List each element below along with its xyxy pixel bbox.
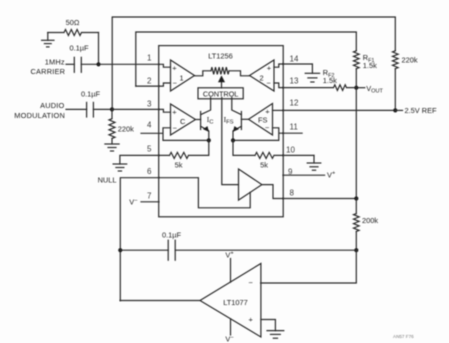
svg-text:−: −: [249, 278, 253, 287]
svg-text:−: −: [173, 124, 177, 133]
svg-text:CONTROL: CONTROL: [203, 90, 238, 99]
svg-text:1: 1: [147, 54, 152, 63]
svg-text:1MHz: 1MHz: [45, 57, 65, 66]
wiper arrow from CONTROL to potentiometer: [218, 75, 225, 88]
svg-text:LT1077: LT1077: [223, 298, 248, 307]
node Vout junction: [354, 86, 358, 90]
wire pin 8 to Vout line: [283, 198, 356, 200]
ground G4 (pin 14): [305, 64, 319, 82]
svg-text:6: 6: [147, 167, 152, 176]
wire to LT1077 inverting input: [261, 250, 356, 283]
wire pin 14 to A2 + input: [274, 64, 283, 67]
wire top feedback loop A (audio node to 220k bias): [112, 17, 395, 109]
svg-text:5k: 5k: [175, 161, 183, 170]
resistor 200k: [354, 199, 379, 232]
node audio junction: [110, 107, 114, 111]
svg-text:1: 1: [180, 74, 184, 83]
svg-text:3: 3: [147, 100, 152, 109]
svg-text:C: C: [180, 117, 186, 126]
svg-text:9: 9: [288, 167, 293, 176]
node Q1 emitter junction: [207, 138, 211, 142]
node pin 8 junction: [354, 196, 358, 200]
svg-text:11: 11: [290, 122, 299, 131]
resistor RF1 1.5k: [354, 51, 378, 70]
svg-text:NULL: NULL: [98, 175, 117, 184]
svg-text:AN57 F76: AN57 F76: [393, 334, 414, 339]
op-amp U2 LT1077: [200, 264, 261, 338]
svg-text:1.5k: 1.5k: [323, 76, 337, 85]
wire pin 14 to ground: [283, 63, 312, 65]
resistor 50Ω: [48, 18, 99, 36]
wire pin 6 null to buffer: [159, 178, 251, 208]
op-amp A1 (video amp 1): [171, 60, 195, 91]
svg-text:200k: 200k: [362, 216, 378, 225]
svg-text:−: −: [267, 79, 271, 88]
svg-text:+: +: [267, 63, 271, 72]
wire pin 12 to FS + input: [273, 109, 284, 111]
svg-text:2: 2: [147, 76, 152, 85]
op-amp C (control amp): [171, 104, 196, 135]
wire pin 7 stub: [141, 201, 159, 203]
svg-text:CARRIER: CARRIER: [31, 67, 66, 76]
wire pin 5 to ground: [120, 155, 159, 164]
wire pin 13 to A2 - input: [274, 83, 283, 88]
label AUDIO MODULATION: [14, 101, 65, 120]
wire feedback loop B (Vout via RF1 to pin 2): [136, 32, 356, 86]
svg-text:8: 8: [290, 188, 295, 197]
potentiometer (fader) between A1 and A2 outputs: [195, 67, 250, 76]
op-amp FS (full-scale amp): [249, 104, 273, 136]
svg-text:0.1µF: 0.1µF: [81, 90, 101, 99]
resistor 220k (bias to 2.5V ref): [393, 51, 418, 69]
svg-text:2.5V REF: 2.5V REF: [405, 106, 438, 115]
wire LT1077 + input to ground: [261, 320, 276, 331]
wire LT1077 V+ supply: [225, 250, 233, 282]
wire pin 3 to C + input: [159, 109, 171, 112]
op-amp A3 output buffer: [239, 169, 262, 200]
svg-text:0.1µF: 0.1µF: [69, 44, 89, 53]
wire 50ohm to carrier node: [98, 33, 100, 65]
IC U1 LT1256 package box: [159, 46, 284, 217]
wire carrier to pin 1: [99, 63, 159, 65]
svg-text:−: −: [265, 123, 269, 132]
svg-text:5: 5: [147, 145, 152, 154]
op-amp A2 (video amp 2): [250, 60, 275, 91]
wire control wiper to output buffer input: [222, 98, 239, 185]
svg-text:13: 13: [290, 77, 299, 86]
svg-text:7: 7: [147, 192, 152, 201]
node carrier junction: [96, 62, 100, 66]
label 1MHz CARRIER: [31, 57, 66, 75]
wire LT1077 V- supply: [225, 319, 233, 343]
wire RF1 to Vout node: [355, 69, 357, 88]
svg-text:+: +: [172, 63, 176, 72]
svg-text:2: 2: [260, 74, 264, 83]
svg-text:10: 10: [286, 145, 295, 154]
svg-text:14: 14: [290, 54, 299, 63]
svg-text:MODULATION: MODULATION: [14, 111, 65, 120]
svg-text:+: +: [249, 315, 253, 324]
svg-text:50Ω: 50Ω: [66, 18, 80, 27]
node 2.5V ref junction: [393, 108, 397, 112]
wire Vout node down to pin 8: [355, 88, 357, 199]
svg-text:+: +: [265, 107, 269, 116]
capacitor C1 0.1uF (carrier input): [66, 44, 99, 73]
svg-text:5k: 5k: [260, 161, 268, 170]
wire audio to pin 3: [112, 108, 159, 110]
node Q2 emitter junction: [231, 138, 235, 142]
transistor Q1 (IC current): [196, 98, 211, 141]
ground G2 (below 220k): [105, 139, 119, 152]
svg-text:220k: 220k: [118, 125, 134, 134]
ground G6 (LT1077 + input): [267, 331, 284, 339]
transistor Q2 (IFS current): [232, 98, 249, 141]
resistor RF2 1.5k (pin 13 to Vout): [283, 68, 356, 90]
svg-text:4: 4: [147, 121, 152, 130]
wire pin 6 NULL net down to LT1077 output: [120, 178, 158, 301]
svg-text:220k: 220k: [402, 55, 418, 64]
svg-text:AUDIO: AUDIO: [40, 101, 64, 110]
resistor 220k (audio input to ground): [109, 109, 134, 138]
capacitor C3 0.1uF (null integrator): [120, 230, 356, 260]
wire LT1077 output to NULL line: [120, 300, 200, 302]
wire pin 10 to ground: [283, 154, 314, 156]
label VOUT: [358, 84, 383, 95]
svg-text:12: 12: [290, 99, 299, 108]
wire pin 12 to 2.5V ref: [283, 109, 395, 111]
ground G3 (pin 5): [113, 164, 127, 171]
label 2.5V REF: [395, 106, 437, 115]
ground G1 (50 ohm input ground): [42, 33, 54, 47]
wire pin 4 / C - input / feedback tie: [141, 128, 209, 141]
svg-text:0.1µF: 0.1µF: [162, 230, 182, 239]
wire buffer output to pin 8: [262, 185, 283, 199]
CONTROL block: [198, 88, 243, 99]
wire 200k to integrator node: [355, 232, 357, 251]
ground G5 (pin 10): [307, 155, 321, 170]
wire pin 9 to V+: [283, 170, 335, 179]
wire pin 2 to A1 - input: [159, 83, 171, 86]
resistor 5k (right): [233, 140, 283, 169]
wire FS - input notch / pin 11 / feedback: [233, 128, 283, 141]
svg-text:1.5k: 1.5k: [363, 61, 377, 70]
wire pin 1 to A1 + input: [159, 64, 171, 67]
wire pin 11 stub: [283, 132, 302, 134]
svg-text:−: −: [173, 79, 177, 88]
svg-text:+: +: [172, 107, 176, 116]
capacitor C2 0.1uF (audio input): [66, 90, 112, 117]
node null-cap junction: [118, 248, 122, 252]
wire 220k to 2.5V ref node: [394, 69, 396, 111]
wire pin 2: [136, 85, 159, 87]
svg-text:LT1256: LT1256: [208, 51, 233, 60]
resistor 5k (left): [159, 140, 209, 169]
node integrator junction: [354, 248, 358, 252]
